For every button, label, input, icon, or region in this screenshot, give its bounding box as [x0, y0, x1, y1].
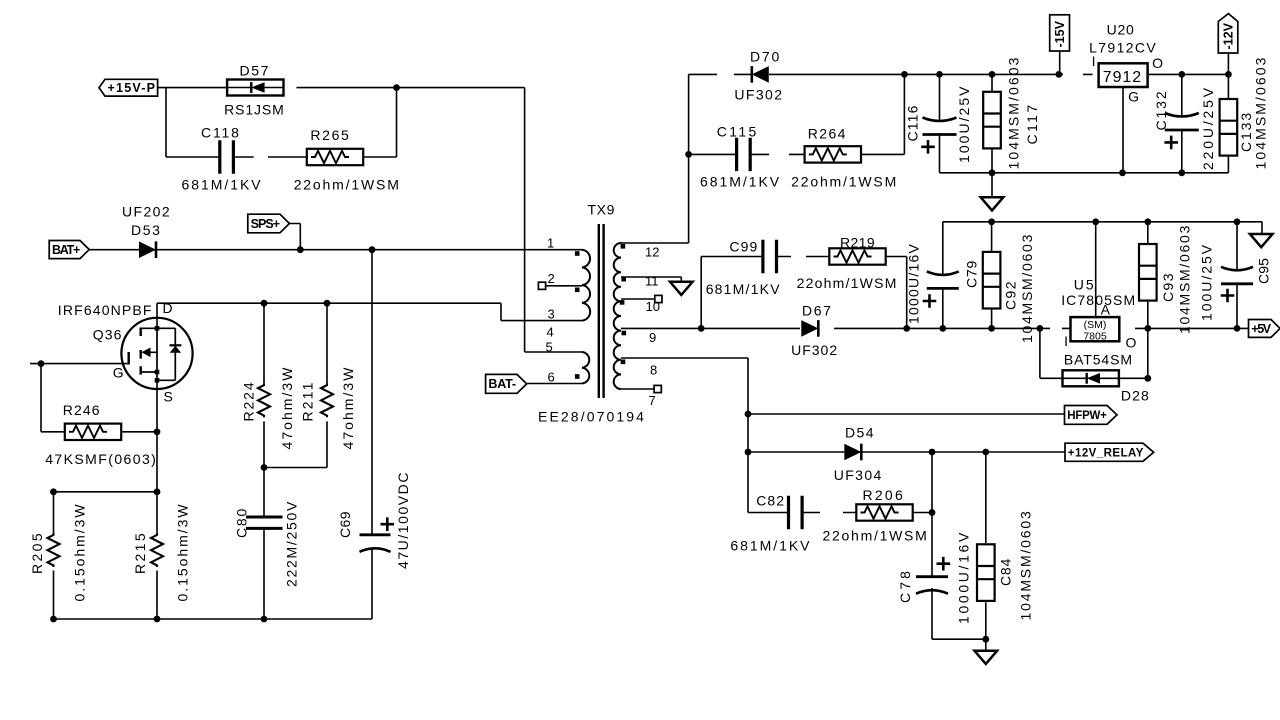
svg-text:D67: D67	[802, 303, 833, 319]
svg-text:5: 5	[546, 340, 553, 355]
svg-text:3: 3	[548, 307, 555, 322]
svg-text:+15V-P: +15V-P	[108, 81, 157, 95]
svg-text:D53: D53	[131, 222, 162, 238]
svg-text:Q36: Q36	[93, 327, 123, 343]
svg-text:+5V: +5V	[1251, 322, 1271, 336]
svg-text:O: O	[1152, 55, 1163, 71]
svg-text:UF304: UF304	[834, 467, 883, 483]
svg-text:C95: C95	[1256, 258, 1272, 284]
svg-text:EE28/070194: EE28/070194	[538, 409, 646, 425]
svg-text:C132: C132	[1153, 89, 1169, 130]
svg-text:C79: C79	[964, 260, 980, 288]
svg-text:R246: R246	[63, 402, 101, 418]
svg-text:C80: C80	[233, 507, 249, 538]
svg-text:100U/25V: 100U/25V	[1199, 243, 1215, 321]
svg-text:220U/25V: 220U/25V	[1200, 85, 1216, 170]
svg-text:9: 9	[649, 330, 656, 345]
svg-text:C92: C92	[1003, 280, 1019, 310]
svg-text:R219: R219	[840, 235, 875, 251]
svg-text:47KSMF(0603): 47KSMF(0603)	[45, 451, 157, 467]
svg-text:G: G	[113, 365, 124, 381]
svg-text:D28: D28	[1121, 388, 1150, 404]
svg-text:1000U/16V: 1000U/16V	[906, 243, 922, 324]
svg-text:C117: C117	[1024, 103, 1040, 145]
svg-text:11: 11	[645, 274, 659, 289]
svg-text:C115: C115	[717, 124, 759, 140]
svg-text:C99: C99	[729, 239, 758, 255]
svg-text:D70: D70	[750, 49, 781, 65]
svg-text:C118: C118	[201, 125, 241, 141]
svg-text:22ohm/1WSM: 22ohm/1WSM	[823, 528, 929, 544]
svg-text:C116: C116	[905, 105, 921, 142]
svg-text:L7912CV: L7912CV	[1089, 40, 1157, 56]
svg-text:R215: R215	[132, 531, 148, 574]
svg-text:8: 8	[650, 363, 657, 378]
svg-text:IC7805SM: IC7805SM	[1061, 292, 1136, 308]
svg-text:104MSM/0603: 104MSM/0603	[1252, 55, 1268, 169]
svg-text:22ohm/1WSM: 22ohm/1WSM	[791, 174, 898, 190]
svg-text:R211: R211	[300, 381, 316, 422]
svg-text:+12V_RELAY: +12V_RELAY	[1068, 448, 1144, 460]
svg-text:47ohm/3W: 47ohm/3W	[340, 365, 356, 449]
svg-text:A: A	[1101, 302, 1111, 318]
svg-text:U20: U20	[1107, 22, 1135, 38]
svg-text:47ohm/3W: 47ohm/3W	[279, 365, 295, 449]
svg-text:104MSM/0603: 104MSM/0603	[1005, 55, 1021, 169]
svg-text:222M/250V: 222M/250V	[284, 500, 300, 587]
svg-text:C84: C84	[997, 558, 1013, 586]
svg-text:104MSM/0603: 104MSM/0603	[1177, 224, 1193, 334]
svg-text:-15V: -15V	[1053, 20, 1067, 47]
svg-text:47U/100VDC: 47U/100VDC	[395, 471, 411, 569]
svg-text:12: 12	[645, 245, 659, 260]
svg-text:I: I	[1064, 333, 1068, 349]
svg-text:O: O	[1126, 335, 1137, 351]
svg-text:R205: R205	[29, 531, 45, 574]
svg-text:S: S	[164, 389, 173, 405]
svg-text:BAT-: BAT-	[488, 377, 516, 391]
svg-text:1000U/16V: 1000U/16V	[955, 530, 971, 624]
svg-text:G: G	[1128, 89, 1139, 105]
svg-text:681M/1KV: 681M/1KV	[730, 538, 811, 554]
svg-text:C69: C69	[337, 511, 353, 538]
svg-text:2: 2	[548, 271, 555, 286]
svg-text:7: 7	[649, 393, 656, 408]
svg-text:C78: C78	[897, 568, 913, 603]
svg-text:D57: D57	[240, 63, 271, 79]
svg-text:(SM): (SM)	[1084, 319, 1107, 331]
svg-text:681M/1KV: 681M/1KV	[706, 281, 781, 297]
svg-text:104MSM/0603: 104MSM/0603	[1019, 233, 1035, 343]
svg-text:C82: C82	[756, 493, 785, 509]
svg-text:R224: R224	[241, 380, 257, 421]
svg-text:HFPW+: HFPW+	[1067, 410, 1107, 422]
svg-text:D54: D54	[845, 425, 875, 441]
svg-text:10: 10	[646, 299, 660, 314]
svg-text:6: 6	[548, 370, 555, 385]
svg-text:22ohm/1WSM: 22ohm/1WSM	[294, 177, 401, 193]
svg-text:BAT+: BAT+	[52, 243, 80, 257]
svg-text:104MSM/0603: 104MSM/0603	[1018, 509, 1034, 620]
svg-text:SPS+: SPS+	[251, 217, 280, 231]
svg-text:681M/1KV: 681M/1KV	[700, 174, 781, 190]
svg-text:TX9: TX9	[588, 202, 616, 218]
svg-text:7912: 7912	[1103, 69, 1142, 86]
svg-text:681M/1KV: 681M/1KV	[182, 177, 263, 193]
svg-text:C93: C93	[1160, 272, 1176, 302]
svg-text:-12V: -12V	[1222, 22, 1236, 49]
svg-text:D: D	[163, 300, 173, 316]
svg-text:I: I	[1092, 53, 1096, 69]
svg-text:R264: R264	[808, 126, 847, 142]
svg-text:RS1JSM: RS1JSM	[224, 102, 285, 118]
svg-text:22ohm/1WSM: 22ohm/1WSM	[797, 275, 898, 291]
svg-text:7805: 7805	[1083, 331, 1107, 343]
svg-text:BAT54SM: BAT54SM	[1064, 352, 1133, 368]
svg-text:100U/25V: 100U/25V	[956, 84, 972, 163]
svg-text:U5: U5	[1074, 277, 1096, 293]
svg-text:0.15ohm/3W: 0.15ohm/3W	[72, 502, 88, 601]
svg-text:4: 4	[547, 325, 554, 340]
svg-text:UF302: UF302	[791, 342, 838, 358]
svg-text:IRF640NPBF: IRF640NPBF	[58, 302, 153, 318]
svg-text:UF202: UF202	[122, 204, 171, 220]
svg-text:R265: R265	[310, 127, 350, 143]
svg-text:R206: R206	[863, 487, 906, 503]
svg-text:0.15ohm/3W: 0.15ohm/3W	[175, 502, 191, 601]
svg-text:UF302: UF302	[734, 87, 783, 103]
svg-text:1: 1	[547, 236, 554, 251]
